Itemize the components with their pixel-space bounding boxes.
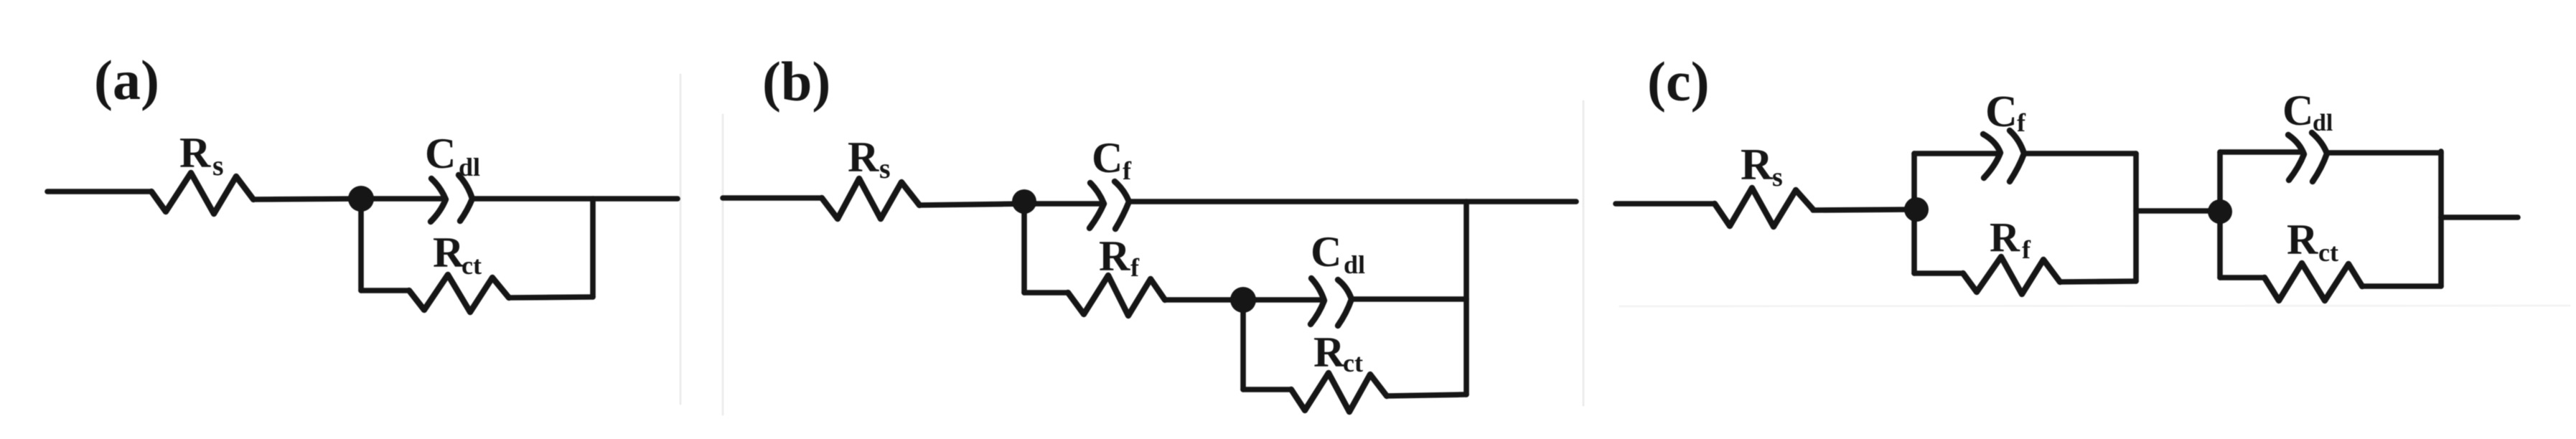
wire Rf to node B2 bbox=[1165, 297, 1243, 303]
wire bottom left (a) bbox=[361, 288, 409, 293]
wire right vertical (a) bbox=[590, 199, 596, 297]
resistor Rct (b) bbox=[1291, 373, 1387, 412]
svg-text:s: s bbox=[1772, 162, 1783, 192]
svg-text:f: f bbox=[1123, 156, 1132, 185]
wire node B2 to Cdl (b) bbox=[1243, 297, 1321, 303]
svg-text:C: C bbox=[2282, 87, 2313, 134]
wire block2 top-right (c) bbox=[2327, 150, 2441, 156]
node dot (a) bbox=[348, 186, 374, 212]
resistor Rct (a) bbox=[409, 275, 509, 312]
capacitor Cf (b) plate 1 bbox=[1090, 183, 1104, 228]
wire block2 bottom-left (c) bbox=[2220, 275, 2264, 280]
capacitor Cdl (c) plate 2 bbox=[2312, 133, 2327, 181]
svg-text:(c): (c) bbox=[1647, 50, 1710, 113]
wire Cdl to right vertical (b) bbox=[1352, 296, 1466, 302]
wire Rs to node (a) bbox=[253, 199, 441, 199]
resistor Rf (c) bbox=[1963, 257, 2060, 294]
panel seam lines bbox=[680, 75, 1583, 415]
svg-text:R: R bbox=[1741, 141, 1774, 189]
svg-text:ct: ct bbox=[1343, 349, 1363, 377]
svg-text:C: C bbox=[1092, 134, 1123, 181]
wire block1 right vertical (c) bbox=[2133, 154, 2139, 281]
resistor Rs (a) bbox=[151, 173, 253, 214]
capacitor Cf (c) plate 1 bbox=[1983, 134, 2000, 178]
svg-text:C: C bbox=[1311, 228, 1341, 275]
capacitor Cf (c) plate 2 bbox=[2010, 131, 2024, 181]
node dot (c) 2 bbox=[2208, 199, 2232, 224]
wire block1 top-left (c) bbox=[1914, 151, 1997, 156]
svg-text:R: R bbox=[848, 133, 879, 181]
capacitor Cdl (a) plate 2 bbox=[459, 175, 472, 221]
wire right lead (c) bbox=[2441, 214, 2518, 220]
svg-text:ct: ct bbox=[462, 251, 482, 280]
wire block2 top-left (c) bbox=[2220, 149, 2300, 155]
wire left lead (c) bbox=[1616, 201, 1715, 207]
svg-text:R: R bbox=[433, 229, 464, 276]
capacitor Cdl (b) plate 1 bbox=[1311, 278, 1324, 324]
wire node B1 down bbox=[1021, 203, 1027, 293]
wire bottom right (a) bbox=[509, 297, 593, 298]
node dot (c) 1 bbox=[1904, 197, 1929, 222]
svg-text:C: C bbox=[425, 130, 456, 177]
svg-text:s: s bbox=[879, 152, 891, 184]
resistor Rct (c) bbox=[2264, 263, 2362, 301]
svg-text:s: s bbox=[212, 149, 224, 181]
capacitor Cdl (a) plate 1 bbox=[431, 179, 446, 222]
resistor Rf (b) bbox=[1068, 275, 1165, 316]
svg-text:R: R bbox=[1099, 232, 1130, 280]
wire block1 bottom-left (c) bbox=[1914, 270, 1963, 276]
capacitor Cdl (c) plate 1 bbox=[2288, 135, 2304, 180]
wire bottom-right (b) bbox=[1387, 395, 1466, 396]
wire left lead (b) bbox=[723, 195, 822, 201]
wire block1 left vertical (c) bbox=[1911, 154, 1917, 273]
svg-text:R: R bbox=[179, 129, 211, 176]
capacitor Cdl (b) plate 2 bbox=[1338, 280, 1352, 326]
svg-text:dl: dl bbox=[2313, 110, 2333, 136]
node dot (b) 2 bbox=[1230, 287, 1256, 313]
svg-text:f: f bbox=[2022, 235, 2031, 264]
svg-text:(b): (b) bbox=[762, 50, 830, 113]
wire between blocks (c) bbox=[2136, 208, 2220, 214]
node dot (b) 1 bbox=[1012, 189, 1036, 214]
svg-text:dl: dl bbox=[1344, 250, 1365, 279]
resistor Rs (c) bbox=[1715, 188, 1813, 227]
svg-text:(a): (a) bbox=[94, 49, 159, 111]
svg-text:R: R bbox=[1313, 329, 1345, 376]
wire block2 right vertical (c) bbox=[2438, 151, 2444, 286]
wire block1 bottom-right (c) bbox=[2060, 281, 2136, 282]
svg-text:R: R bbox=[2287, 216, 2318, 263]
wire right vertical (b) bbox=[1463, 202, 1469, 395]
wire node A down bbox=[358, 199, 364, 291]
wire lower-left (b) bbox=[1024, 290, 1068, 296]
svg-text:f: f bbox=[2017, 108, 2026, 137]
wire left lead (a) bbox=[47, 189, 151, 194]
wire Rs to node C1 bbox=[1813, 209, 1914, 210]
wire bottom-left (b) bbox=[1243, 387, 1291, 392]
wire node to Cf (b) bbox=[1024, 201, 1100, 207]
wire Rs to node (b) bbox=[919, 204, 1026, 205]
svg-text:dl: dl bbox=[459, 153, 480, 181]
wire Cf to right (b) top rail bbox=[1129, 199, 1576, 204]
wire capacitor to right end (a) bbox=[472, 196, 678, 202]
wire block2 bottom-right (c) bbox=[2362, 283, 2441, 289]
svg-text:C: C bbox=[1985, 88, 2018, 136]
wire block2 left vertical (c) bbox=[2217, 152, 2223, 278]
wire block1 top-right (c) bbox=[2024, 151, 2136, 156]
wire node B2 down bbox=[1240, 300, 1246, 390]
svg-text:f: f bbox=[1130, 253, 1140, 282]
resistor Rs (b) bbox=[822, 179, 919, 219]
svg-text:R: R bbox=[1990, 214, 2020, 260]
svg-text:ct: ct bbox=[2318, 238, 2338, 267]
capacitor Cf (b) plate 2 bbox=[1115, 181, 1129, 229]
